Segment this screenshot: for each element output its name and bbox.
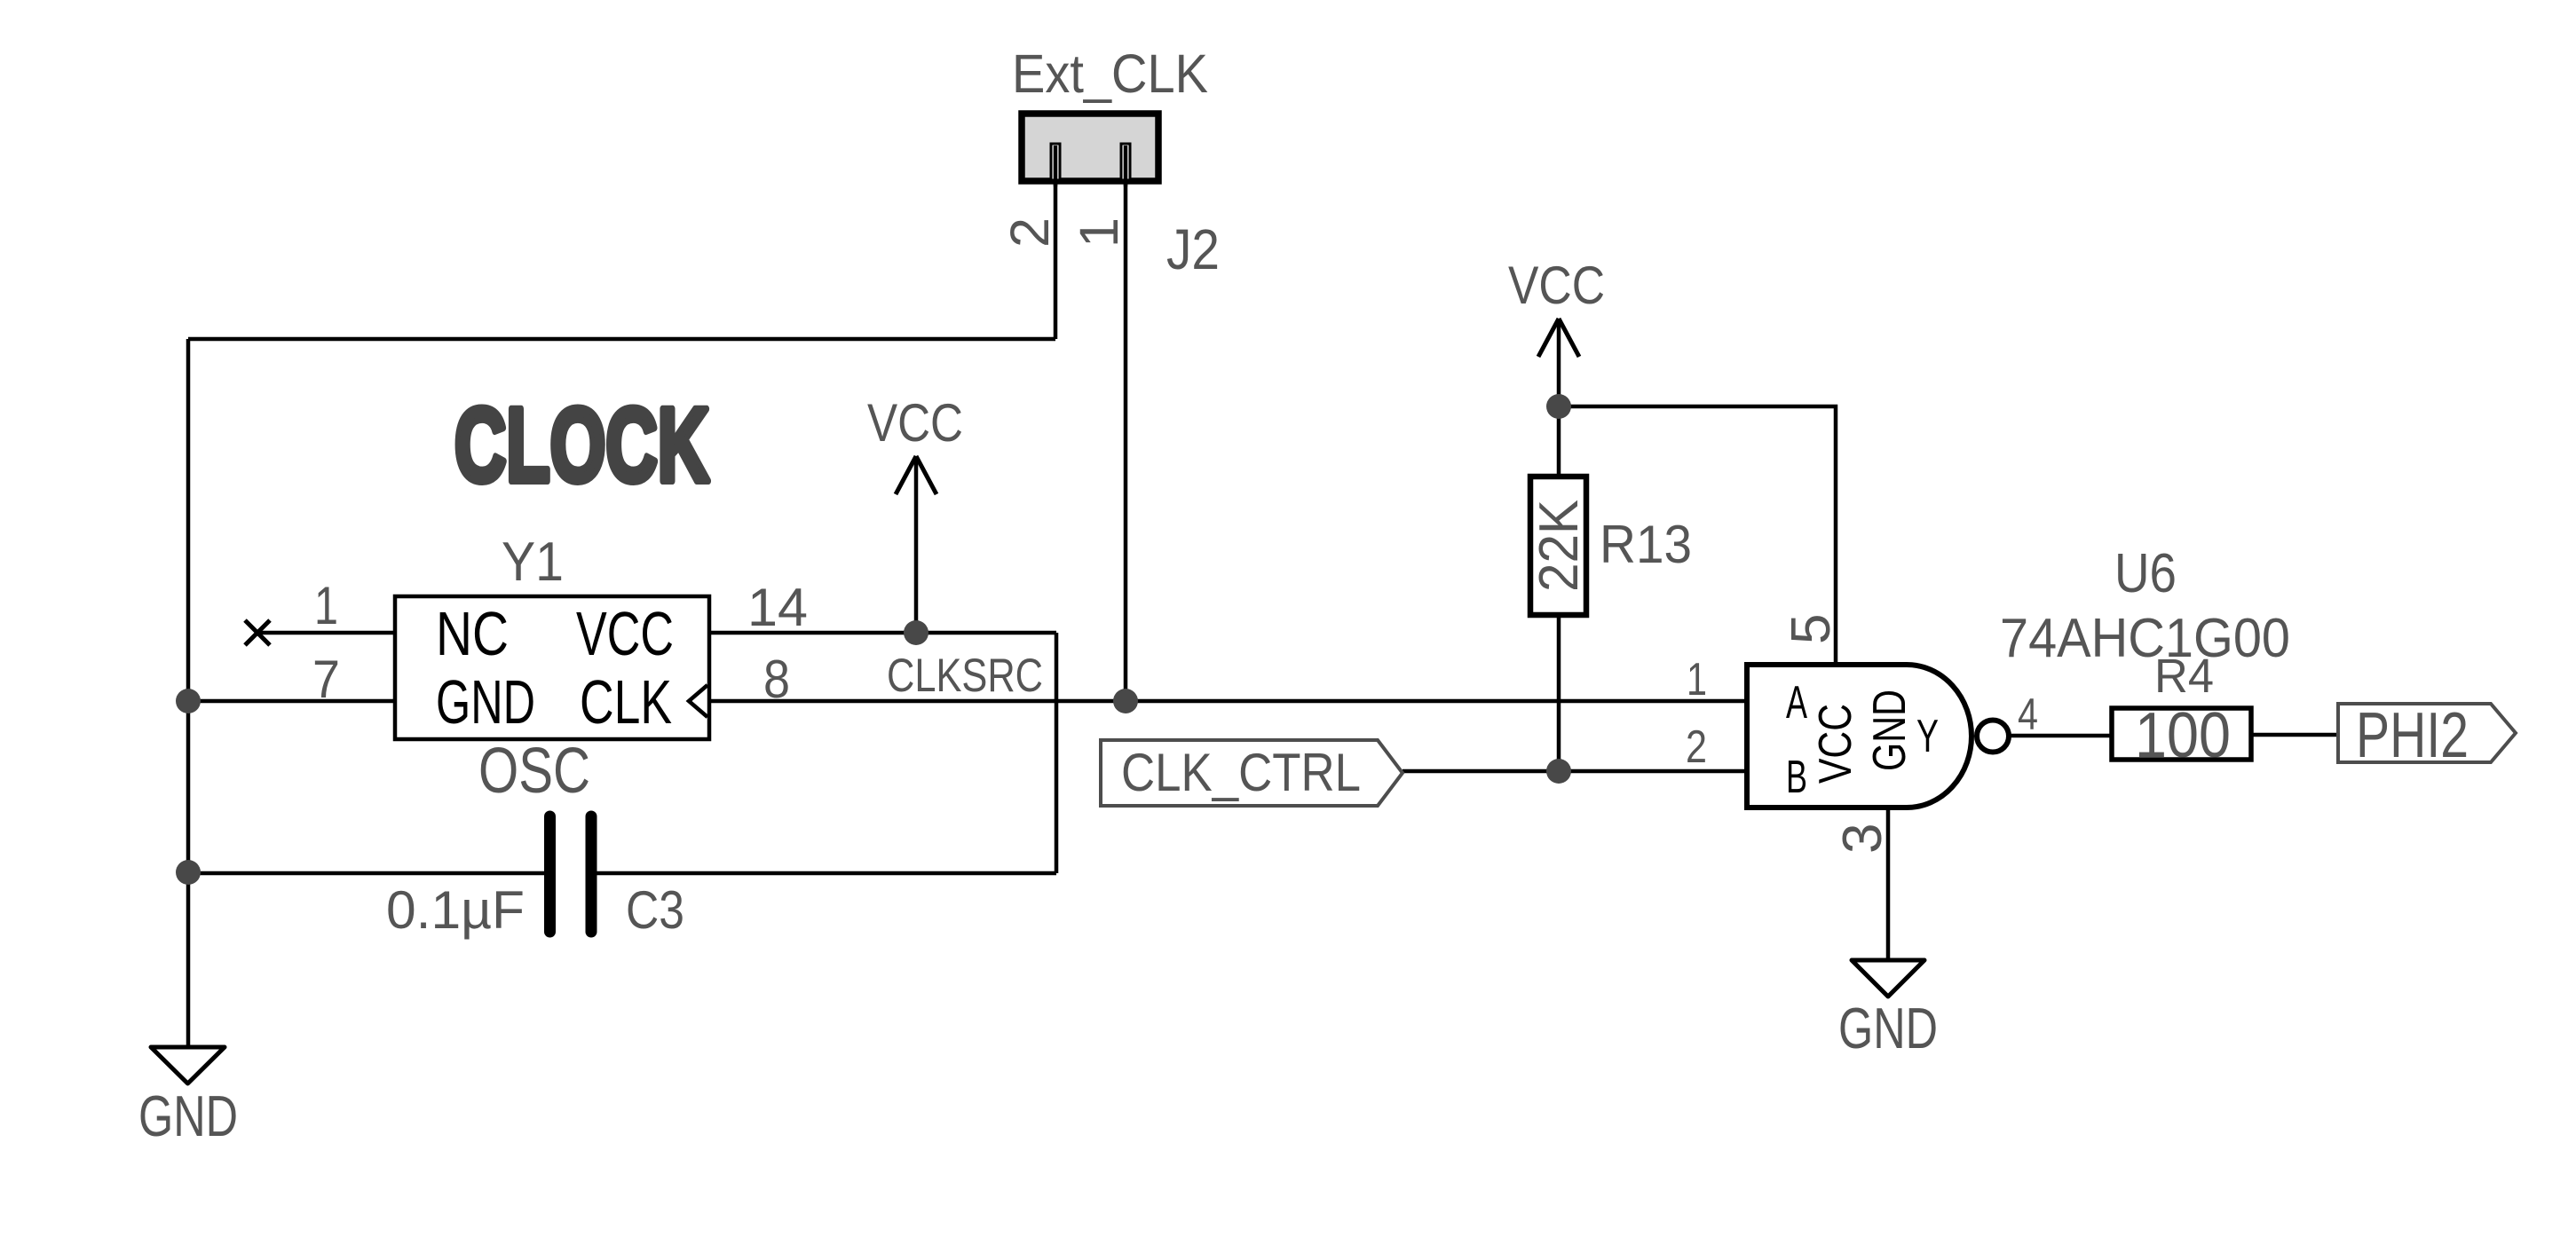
svg-text:Y1: Y1 — [502, 532, 564, 593]
nand gate U6 body — [1747, 665, 1972, 808]
svg-text:3: 3 — [1832, 824, 1893, 854]
svg-text:0.1µF: 0.1µF — [386, 880, 525, 940]
ground symbol at U6 pin3 — [1852, 960, 1924, 997]
svg-text:CLOCK: CLOCK — [454, 387, 709, 504]
svg-text:B: B — [1786, 752, 1807, 803]
svg-text:74AHC1G00: 74AHC1G00 — [2000, 608, 2290, 669]
U6 output inversion bubble — [1977, 721, 2009, 753]
wire U6 output to R4 — [2009, 734, 2111, 738]
svg-text:Ext_CLK: Ext_CLK — [1012, 43, 1208, 104]
svg-text:A: A — [1786, 677, 1807, 729]
svg-text:PHI2: PHI2 — [2356, 700, 2469, 771]
svg-text:Y: Y — [1916, 711, 1939, 762]
Y1 clock input wedge on CLK pin — [689, 685, 707, 717]
svg-text:22K: 22K — [1529, 500, 1590, 592]
svg-text:GND: GND — [436, 667, 535, 737]
svg-text:1: 1 — [1687, 654, 1707, 705]
wire VCC symbol drop at x1756 — [1557, 319, 1561, 406]
svg-text:2: 2 — [1686, 721, 1707, 773]
svg-text:1: 1 — [314, 576, 338, 635]
svg-text:C3: C3 — [626, 880, 684, 940]
svg-text:1: 1 — [1069, 217, 1129, 248]
junction J2 pin1 at CLK net — [1113, 689, 1138, 713]
junction VCC at pin14 wire — [904, 620, 928, 645]
svg-text:VCC: VCC — [576, 599, 674, 668]
wire J2 pin 1 stub through slot — [1124, 146, 1128, 186]
svg-text:5: 5 — [1781, 614, 1842, 644]
svg-text:VCC: VCC — [867, 393, 963, 453]
svg-text:J2: J2 — [1166, 217, 1220, 281]
svg-text:4: 4 — [2018, 690, 2038, 739]
wire top horizontal to J2 pin2 — [188, 337, 1055, 342]
svg-text:100: 100 — [2135, 700, 2231, 771]
hierarchical label CLK_CTRL — [1101, 740, 1403, 806]
svg-text:VCC: VCC — [1810, 704, 1861, 784]
svg-text:CLKSRC: CLKSRC — [887, 650, 1043, 702]
svg-text:OSC: OSC — [478, 736, 590, 807]
svg-text:NC: NC — [436, 599, 509, 668]
wire CLK_CTRL to U6 pin2 — [1403, 769, 1745, 774]
wire J2 pin 2 stub through slot — [1054, 146, 1058, 186]
resistor R4 body — [2112, 708, 2251, 760]
svg-text:14: 14 — [747, 578, 808, 637]
svg-text:U6: U6 — [2114, 543, 2177, 604]
resistor R13 body — [1530, 477, 1586, 615]
connector J2 body — [1022, 114, 1158, 181]
wire VCC node to U6 pin5 — [1559, 406, 1836, 665]
wire cap left — [188, 871, 545, 876]
svg-text:R13: R13 — [1600, 515, 1692, 574]
svg-text:R4: R4 — [2154, 650, 2214, 703]
connector J2 pin 1 slot — [1121, 144, 1130, 180]
svg-text:CLK: CLK — [580, 667, 672, 737]
connector J2 pin 2 slot — [1051, 144, 1060, 180]
wire cap right — [597, 871, 1056, 876]
wire GND left rail vertical — [186, 339, 191, 1047]
wire CLK net Y1 pin8 to U6 pin1 — [709, 699, 1745, 704]
junction on cap wire at left rail — [176, 860, 201, 885]
VCC power symbol at x1032 — [896, 456, 936, 494]
svg-text:GND: GND — [138, 1084, 238, 1148]
wire VCC symbol drop at x1032 — [914, 457, 919, 633]
ground symbol left — [151, 1047, 225, 1084]
VCC power symbol at x1756 — [1538, 319, 1579, 357]
junction R13 at CLK_CTRL wire — [1546, 759, 1571, 784]
wire J2 pin 2 vertical — [1054, 146, 1058, 339]
capacitor C3 left plate — [544, 816, 556, 932]
svg-text:CLK_CTRL: CLK_CTRL — [1121, 743, 1361, 802]
svg-text:VCC: VCC — [1508, 256, 1605, 315]
wire Y1 pin1 NC stub — [257, 631, 395, 635]
svg-text:8: 8 — [763, 650, 790, 709]
junction on pin7 wire at left rail — [176, 689, 201, 713]
svg-text:7: 7 — [312, 650, 340, 709]
svg-text:GND: GND — [1864, 690, 1916, 771]
no-connect X on Y1 pin 1 — [245, 620, 270, 645]
wire R13 top lead — [1557, 406, 1561, 475]
wire Y1 pin7 GND — [188, 699, 395, 704]
wire R4 to PHI2 — [2252, 733, 2338, 737]
capacitor C3 right plate — [586, 816, 597, 932]
oscillator Y1 body — [395, 596, 709, 739]
wire J2 pin 1 vertical — [1124, 146, 1128, 701]
svg-text:2: 2 — [1000, 217, 1060, 248]
junction VCC node above R13 — [1546, 394, 1571, 419]
wire U6 pin3 to GND — [1886, 808, 1891, 960]
wire VCC to cap right vertical — [1055, 633, 1059, 873]
wire R13 bottom lead — [1557, 617, 1561, 771]
wire Y1 pin14 VCC — [709, 631, 1056, 635]
hierarchical label PHI2 — [2338, 704, 2516, 762]
svg-text:GND: GND — [1838, 996, 1938, 1060]
